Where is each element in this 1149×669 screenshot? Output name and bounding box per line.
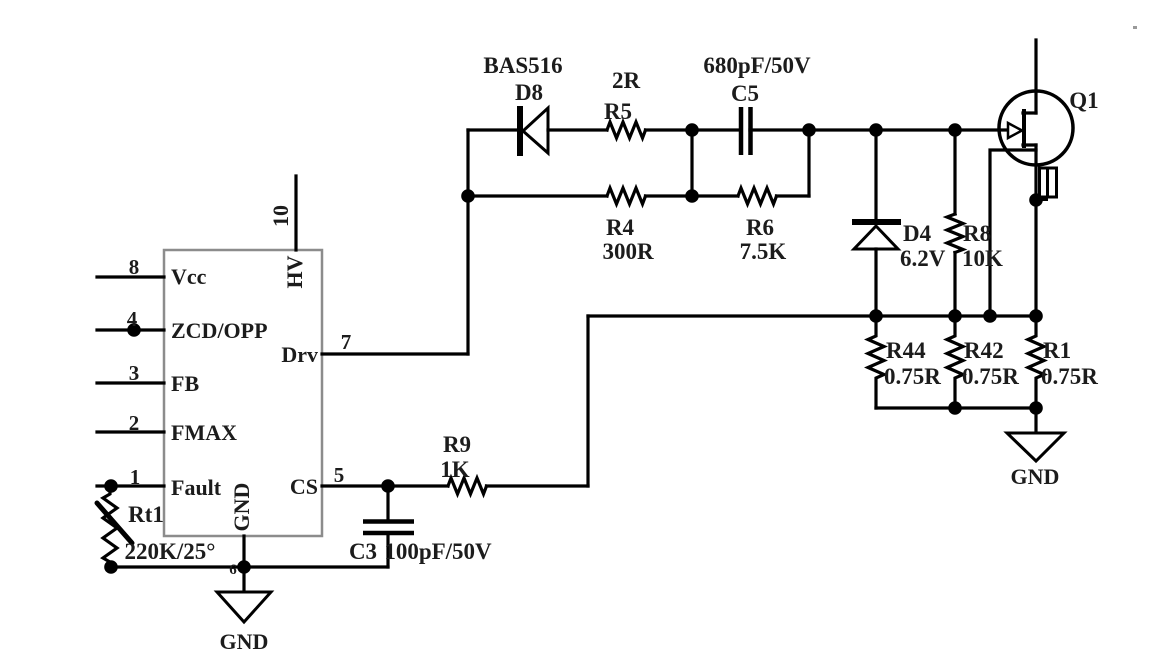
svg-text:3: 3 (129, 361, 140, 385)
diode D4 zener triangle (854, 226, 898, 249)
node : junction C5 right (802, 123, 816, 137)
wire : C5 to gate of Q1 (750, 128, 1006, 131)
svg-text:Fault: Fault (171, 475, 222, 500)
node : sense line / R8 (948, 309, 962, 323)
svg-text:GND: GND (220, 629, 269, 654)
wire : sense node line (588, 314, 1036, 317)
svg-text:7: 7 (341, 330, 352, 354)
svg-text:C3: C3 (349, 539, 377, 564)
capacitor C5 680pF/50V plates (741, 107, 751, 155)
svg-text:10: 10 (268, 205, 293, 227)
wire : R9 to corner (487, 484, 589, 487)
svg-text:R42: R42 (964, 338, 1004, 363)
svg-text:GND: GND (1011, 464, 1060, 489)
wire : stub to ground right (1034, 408, 1037, 433)
svg-text:2: 2 (129, 411, 140, 435)
ground : right GND symbol (1007, 433, 1064, 461)
wire : Q1 kelvin source return (990, 150, 1036, 316)
wire : R5 to C5 (646, 128, 742, 131)
thermistor Rt1 220K/25 (103, 486, 117, 567)
svg-text:HV: HV (282, 255, 307, 288)
node : junction on ZCD/OPP stub (127, 323, 141, 337)
svg-text:CS: CS (290, 474, 318, 499)
svg-text:Drv: Drv (281, 342, 318, 367)
svg-text:5: 5 (334, 463, 345, 487)
wire : riser to sense node line (586, 316, 589, 486)
svg-text:680pF/50V: 680pF/50V (703, 53, 811, 78)
wire : lower branch to R4 (468, 194, 607, 197)
node : junction top/bottom branch left (685, 123, 699, 137)
resistor R1 0.75R (1028, 316, 1044, 408)
svg-text:300R: 300R (602, 239, 654, 264)
wire : R8 lower lead (953, 253, 956, 317)
wire : bottom ground rail (111, 565, 388, 568)
wire : R6 to right tie (777, 194, 810, 197)
svg-text:4: 4 (127, 307, 138, 331)
diode D8 BAS516 cathode bar (517, 106, 523, 156)
resistor R42 0.75R (947, 316, 963, 408)
capacitor C3 upper lead (386, 486, 389, 521)
node : sense line / D4 (869, 309, 883, 323)
capacitor C3 lower lead (386, 533, 389, 567)
node : bottom tie / R42 (948, 401, 962, 415)
svg-text:R1: R1 (1043, 338, 1071, 363)
svg-text:Q1: Q1 (1069, 88, 1098, 113)
resistor : source package box (1040, 168, 1057, 197)
svg-text:1: 1 (130, 465, 141, 489)
resistor R44 0.75R (868, 316, 884, 408)
node : rail / Rt1 (104, 560, 118, 574)
wire : Q1 source lead down to sense node (1034, 145, 1037, 316)
svg-text:R4: R4 (606, 215, 635, 240)
wire : R4 to R6 (646, 194, 739, 197)
resistor R4 300R (607, 188, 646, 204)
wire : pin 1 Fault stub (97, 484, 164, 487)
wire : riser from Drv up to snubber network (466, 130, 469, 354)
wire : pin 3 FB stub (97, 381, 164, 384)
wire : vertical tie right of C5 (807, 130, 810, 196)
node : rail / IC GND (237, 560, 251, 574)
wire : Drv pin 7 to riser (322, 352, 468, 355)
svg-text:6.2V: 6.2V (900, 246, 946, 271)
svg-text:FMAX: FMAX (171, 420, 237, 445)
svg-text:Rt1: Rt1 (128, 502, 164, 527)
ground : bottom GND symbol (217, 592, 271, 622)
svg-text:FB: FB (171, 371, 199, 396)
wire : pin 2 FMAX stub (97, 430, 164, 433)
svg-text:7.5K: 7.5K (740, 239, 787, 264)
svg-text:10K: 10K (962, 246, 1003, 271)
wire : Q1 drain lead up (1034, 40, 1037, 113)
svg-text:0.75R: 0.75R (962, 364, 1019, 389)
svg-text:R5: R5 (604, 99, 632, 124)
svg-text:1K: 1K (440, 457, 470, 482)
svg-text:6: 6 (229, 562, 237, 578)
resistor R9 1K (448, 478, 487, 494)
node : CS / C3 junction (381, 479, 395, 493)
svg-text:R6: R6 (746, 215, 774, 240)
transistor Q1 gate bar (1022, 109, 1026, 148)
node : gate wire / D4 junction (869, 123, 883, 137)
resistor R5 2R (607, 122, 646, 138)
svg-text:R8: R8 (963, 221, 991, 246)
diode D8 BAS516 triangle (523, 108, 548, 153)
resistor R6 7.5K (738, 188, 777, 204)
node : junction lower branch (685, 189, 699, 203)
wire : Rt1 arrow stroke (97, 503, 132, 543)
wire : pin 8 Vcc stub (97, 275, 164, 278)
svg-text:D8: D8 (515, 80, 543, 105)
svg-text:0.75R: 0.75R (884, 364, 941, 389)
svg-text:BAS516: BAS516 (483, 53, 562, 78)
wire : vertical tie left of C5 (690, 130, 693, 196)
wire : D4 upper lead (874, 130, 877, 222)
capacitor C3 100pF/50V plates (363, 522, 414, 534)
svg-text:C5: C5 (731, 81, 759, 106)
wire : Q1 source internal (1023, 143, 1036, 146)
resistor R8 10K (947, 214, 963, 253)
node : junction Fault / Rt1 (104, 479, 118, 493)
svg-text:R44: R44 (886, 338, 926, 363)
svg-text:0.75R: 0.75R (1041, 364, 1098, 389)
wire : pin 4 ZCD/OPP stub (97, 328, 164, 331)
wire : CS pin to R9 (322, 484, 448, 487)
node : junction riser / lower branch (461, 189, 475, 203)
node : gate wire / R8 junction (948, 123, 962, 137)
svg-text:ZCD/OPP: ZCD/OPP (171, 318, 268, 343)
wire : pin 10 HV stub (294, 176, 297, 250)
transistor Q1 circle (999, 91, 1073, 165)
node : sense line / kelvin (983, 309, 997, 323)
svg-text:D4: D4 (903, 221, 932, 246)
artifact mark top right (1133, 26, 1137, 29)
wire : Q1 drain internal (1023, 111, 1036, 114)
svg-text:2R: 2R (612, 68, 641, 93)
svg-text:100pF/50V: 100pF/50V (384, 539, 492, 564)
wire : R8 upper lead (953, 130, 956, 214)
node : bottom tie / R1 (1029, 401, 1043, 415)
wire : IC GND pin stub (242, 536, 245, 592)
svg-text:Vcc: Vcc (171, 264, 207, 289)
diode D4 zener cathode bar (852, 219, 901, 225)
svg-text:8: 8 (129, 255, 140, 279)
wire : top branch left segment (468, 128, 516, 131)
transistor Q1 gate arrow (1008, 123, 1022, 138)
node : sense line / source (1029, 309, 1043, 323)
svg-text:R9: R9 (443, 432, 471, 457)
wire : D8 to R5 (548, 128, 607, 131)
op-amp U1 : controller IC body (164, 250, 322, 536)
node : source box junction (1029, 193, 1043, 207)
wire : bottom tie of parallel resistors (876, 406, 1036, 409)
wire : D4 lower lead (874, 249, 877, 316)
svg-text:220K/25°: 220K/25° (125, 539, 216, 564)
svg-text:GND: GND (229, 483, 254, 532)
